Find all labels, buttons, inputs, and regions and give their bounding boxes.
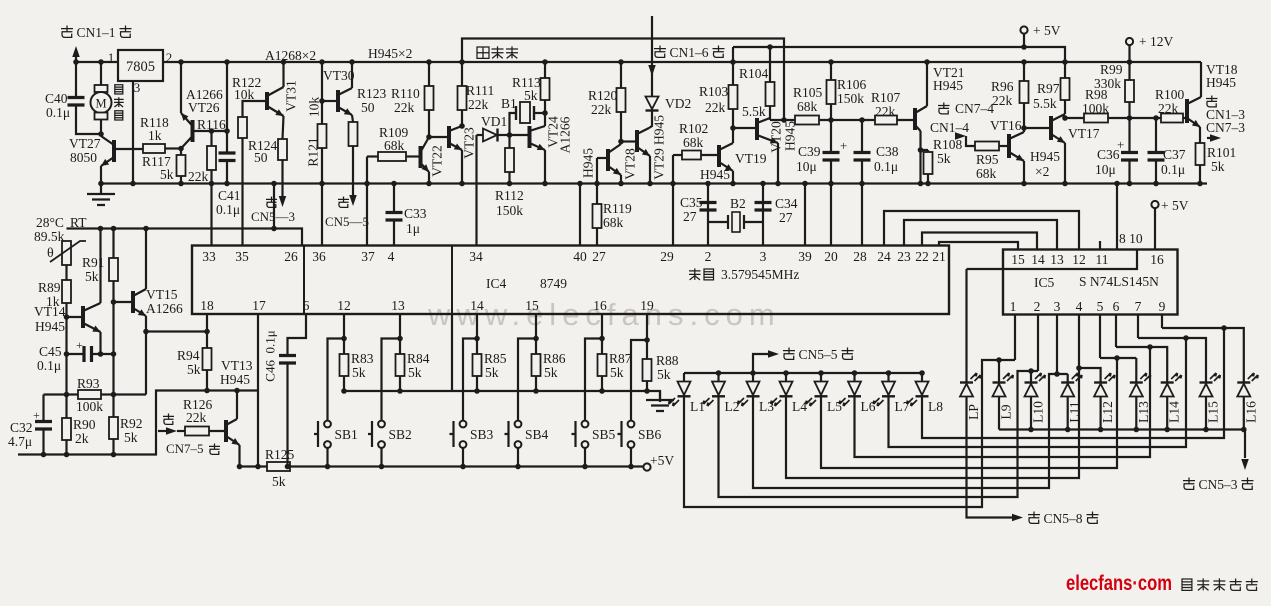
wire R103 column [732,47,734,62]
svg-text:19: 19 [640,298,654,313]
wire L14 anode [1166,397,1168,430]
capacitor C38 0.1u [861,120,863,152]
svg-text:VT16: VT16 [990,118,1022,133]
svg-text:C46 0.1μ: C46 0.1μ [263,330,278,381]
wire pin33 column [210,184,212,246]
resistor R97 5.5k [1061,78,1070,100]
svg-text:VT31: VT31 [284,80,299,112]
svg-text:100k: 100k [1082,101,1109,116]
svg-text:R86: R86 [543,351,566,366]
svg-text:H945: H945 [1206,75,1236,90]
wire VT30 collector [351,62,353,88]
svg-text:C45: C45 [39,344,62,359]
svg-text:16: 16 [593,298,607,313]
capacitor C36 10u [1128,118,1130,152]
svg-text:C41: C41 [218,188,241,203]
capacitor C46 0.1u [288,315,307,356]
wire VT14 collector [99,229,101,304]
svg-text:10k: 10k [234,87,255,102]
svg-text:21: 21 [932,249,946,264]
wire VT29 base [621,140,637,142]
wire VT21 collector [926,62,928,106]
svg-text:VT29: VT29 [652,148,667,180]
svg-text:89.5k: 89.5k [34,229,65,244]
wire pin37 column [366,157,368,246]
LED L16 [1237,381,1250,383]
wire CN1-1 lead [75,52,77,62]
svg-text:θ: θ [47,246,54,261]
transistor VT18 H945 [1185,99,1189,123]
svg-text:7805: 7805 [126,59,155,75]
svg-text:22k: 22k [394,100,415,115]
resistor R90 2k [62,418,71,440]
node CN1-3 CN7-3 out labels [1206,96,1218,107]
svg-text:S N74LS145N: S N74LS145N [1079,274,1159,289]
svg-text:5k: 5k [657,367,671,382]
resistor R123 50 [349,122,358,146]
svg-text:elecfans·com: elecfans·com [1066,571,1172,595]
wire VT13 emitter [238,445,240,467]
svg-text:B2: B2 [730,196,746,211]
svg-text:R108: R108 [933,137,963,152]
transistor VT17 [1049,116,1053,140]
svg-text:150k: 150k [496,203,523,218]
svg-text:R106: R106 [837,77,867,92]
svg-text:+ 12V: + 12V [1139,34,1173,49]
wire right LED anode bus [999,428,1245,430]
node CN7-5 input [163,414,174,425]
wire L8 anode [921,373,923,382]
wire emitter to R94 top [146,330,207,332]
wire R110 top [428,62,430,86]
svg-text:R90: R90 [73,417,96,432]
LED L9 [993,381,1006,383]
svg-text:CN5–8: CN5–8 [1044,511,1083,526]
svg-text:R123: R123 [357,86,387,101]
resistor R86 5k [532,354,541,376]
capacitor C37 0.1u [1155,118,1157,152]
svg-text:A1266: A1266 [558,116,573,153]
wire L2 step to IC5 pin2 [719,371,1039,497]
resistor R91 5k [109,258,118,281]
wire buzzer rail [462,39,784,121]
svg-text:R104: R104 [739,66,769,81]
svg-text:IC5: IC5 [1034,275,1055,290]
regulator 7805 [118,50,163,81]
svg-text:4.7μ: 4.7μ [8,434,32,449]
wire VT31 base / resistor R122 10k [243,101,268,117]
diode VD2 [646,97,659,110]
wire L12 anode [1099,397,1101,430]
transistor VT13 H945 [224,420,228,442]
diode VD1 [477,134,484,136]
svg-text:R125: R125 [265,447,295,462]
wire L16 anode [1243,397,1245,430]
resistor R119 68k [593,204,602,228]
svg-text:5k: 5k [352,365,366,380]
switch SB1 [324,421,331,428]
svg-text:L2: L2 [725,399,740,414]
wire L5 step to IC5 pin5 [821,358,1117,468]
svg-text:A1266: A1266 [146,301,183,316]
svg-text:2: 2 [166,50,173,65]
svg-text:H945: H945 [700,167,730,182]
svg-text:B1: B1 [501,96,517,111]
svg-text:L13: L13 [1136,401,1151,423]
svg-text:CN1–4: CN1–4 [930,120,969,135]
svg-text:27: 27 [592,249,606,264]
svg-text:8 10: 8 10 [1119,231,1143,246]
wire VT31 collector [282,62,284,87]
terminal +12V [1126,38,1133,45]
svg-text:C32: C32 [10,420,33,435]
LED L4 [780,382,793,396]
svg-text:H945: H945 [581,148,596,178]
wire VT15 collector [145,229,147,290]
wire C41 top [226,62,228,152]
svg-text:11: 11 [1096,252,1109,267]
svg-text:SB1: SB1 [335,427,358,442]
svg-text:1k: 1k [148,128,162,143]
wire L1 anode [683,373,685,382]
svg-text:+: + [840,138,847,153]
svg-text:SB5: SB5 [592,427,616,442]
svg-text:100k: 100k [76,399,103,414]
resistor R83 5k [340,354,349,376]
svg-text:22k: 22k [705,100,726,115]
wire branch to SB4 [518,339,536,421]
transistor VT23 [447,126,451,148]
wire node B1 left [507,132,513,138]
wire VT13 collector [236,391,238,420]
svg-text:VT30: VT30 [323,68,355,83]
svg-text:14: 14 [470,298,484,313]
svg-text:R91: R91 [82,255,105,270]
wire VT26 base [193,130,228,132]
svg-text:R96: R96 [991,79,1014,94]
svg-text:50: 50 [254,150,268,165]
wire left column [65,303,67,418]
wire VT16 collector / R96 column [1023,103,1025,132]
capacitor C32 4.7u [42,395,44,422]
wire R121 column [321,62,323,124]
resistor R110 22k [425,86,434,110]
svg-text:3: 3 [134,80,141,95]
svg-text:35: 35 [235,249,249,264]
svg-text:2: 2 [1034,299,1041,314]
wire LP anode to CN5-8 [967,397,1013,518]
switch SB5 [582,421,589,428]
wire base row y118 [1065,117,1187,119]
wire pin40 column [579,184,581,246]
wire L4 anode [785,373,787,382]
svg-text:28: 28 [853,249,867,264]
svg-text:27: 27 [779,210,793,225]
LED L1 [678,382,691,396]
svg-text:68k: 68k [797,99,818,114]
wire R104 column [769,47,771,82]
wire R123 to CN5-5 arrow [352,146,354,196]
resistor R108 5k [921,149,929,151]
wire L7 step to IC5 pin7 [889,338,1187,447]
terminal +5V IC5 [1151,201,1158,208]
transistor VT28 [606,149,610,171]
svg-text:1: 1 [108,50,115,65]
wire CN1-4 input to R95 [955,132,966,140]
wire pin2 column [707,184,709,246]
svg-text:+: + [33,408,40,422]
wire IC4 pin column R88 [646,315,648,360]
svg-text:C34: C34 [775,196,798,211]
svg-text:H945×2: H945×2 [368,46,412,61]
svg-text:24: 24 [877,249,891,264]
svg-text:68k: 68k [384,138,405,153]
svg-text:L14: L14 [1167,401,1182,423]
svg-text:7: 7 [1135,299,1142,314]
LED LP [960,381,973,383]
LED L14 [1161,381,1174,383]
svg-text:2: 2 [705,249,712,264]
svg-text:CN7–4: CN7–4 [955,101,994,116]
wire branch to SB2 [382,339,401,421]
wire VT15 emitter [145,316,147,395]
resistor R116 22k [207,146,216,170]
svg-text:1μ: 1μ [406,221,420,236]
LED L10 [1025,381,1038,383]
wire L1 step to IC5 pin1 [684,360,1015,507]
svg-text:VD2: VD2 [665,96,691,111]
wire IC4 pin29 column [672,155,674,246]
svg-text:5k: 5k [187,362,201,377]
svg-text:36: 36 [312,249,326,264]
LED L7 [882,382,895,396]
svg-text:22: 22 [915,249,929,264]
svg-text:12: 12 [1072,252,1086,267]
svg-text:5k: 5k [272,474,286,489]
wire IC4 divider continuation [451,314,453,391]
resistor R113 5k [544,62,546,78]
label buzzer [477,47,489,58]
wire IC4 pin column R87 [601,315,603,355]
op-amp IC4 8749 box [192,246,949,315]
svg-text:5k: 5k [160,167,174,182]
logo chinese [1182,579,1192,590]
capacitor C34 27 [755,203,772,211]
resistor R85 5k [473,354,482,376]
wire VT17 base [1021,125,1027,131]
svg-text:27: 27 [683,209,697,224]
svg-text:68k: 68k [976,166,997,181]
svg-text:5.5k: 5.5k [742,104,766,119]
transistor VT20 [755,118,759,140]
wire L10 anode [1030,397,1032,430]
svg-text:29: 29 [660,249,674,264]
LED L13 [1130,381,1143,383]
svg-text:SB4: SB4 [525,427,549,442]
wire IC5 divider to LP [967,250,1138,270]
svg-text:R105: R105 [793,85,823,100]
wire VT18 emitter / R101 [1199,127,1201,143]
transistor VT31 [265,92,269,110]
svg-text:CN5–3: CN5–3 [1199,477,1238,492]
svg-text:4: 4 [1076,299,1083,314]
svg-text:L15: L15 [1206,401,1221,423]
wire VT28 base [597,157,608,159]
svg-text:C37: C37 [1163,147,1186,162]
svg-text:VT15: VT15 [146,287,178,302]
svg-text:5k: 5k [124,430,138,445]
svg-text:R89: R89 [38,280,61,295]
transistor VT29 [635,130,639,152]
svg-text:R120: R120 [588,88,618,103]
svg-text:CN5––5: CN5––5 [325,214,369,229]
svg-text:VT23: VT23 [462,127,477,159]
transistor VT26 A1266 [191,120,195,142]
wire IC4 pin column R86 [535,315,537,355]
crystal B2 [708,221,727,223]
wire middle column R91/R92 [112,229,114,259]
svg-text:5k: 5k [1211,159,1225,174]
svg-text:6: 6 [303,298,310,313]
svg-text:5k: 5k [85,269,99,284]
transistor VT19 [717,145,721,167]
resistor R117 5k [177,155,186,176]
svg-text:37: 37 [361,249,375,264]
svg-text:VT14: VT14 [34,304,66,319]
svg-text:SB6: SB6 [638,427,662,442]
wire LP cathode from IC5 [965,269,967,383]
svg-text:5k: 5k [408,365,422,380]
wire to IC4 pin36 [321,184,323,246]
node CN5-5 out label [338,197,349,208]
resistor R102 68k [682,151,701,160]
wire pin23 to IC5 pin13 [904,220,1057,250]
resistor R112 150k [505,148,514,172]
node CN5-3 label [1183,478,1195,490]
resistor R94 5k [203,348,212,370]
resistor R92 5k [109,417,118,439]
LED L12 [1094,381,1107,383]
svg-text:H945: H945 [220,372,250,387]
svg-text:1: 1 [1010,299,1017,314]
svg-text:VT17: VT17 [1068,126,1100,141]
terminal +5V buttons [643,463,650,470]
svg-text:34: 34 [469,249,483,264]
svg-text:R119: R119 [603,201,632,216]
transistor VT24 A1266 [528,126,532,148]
svg-text:VT28: VT28 [623,148,638,180]
motor M (电动机) [100,62,102,85]
svg-text:150k: 150k [837,91,864,106]
wire VT21 emitter column [919,131,921,184]
wire L6 anode [853,373,855,382]
svg-text:R83: R83 [351,351,374,366]
wire pin4 column with C33 [393,184,395,213]
node CN5-5 input [753,354,768,373]
resistor R95 68k [975,142,999,151]
svg-text:3: 3 [760,249,767,264]
svg-text:9: 9 [1159,299,1166,314]
wire IC4 pin column R84 [399,315,401,355]
wire L9 anode [998,397,1000,430]
ground main [87,185,115,205]
wire CN1-6 feed [651,16,653,96]
resistor R89 1k [65,265,67,280]
resistor R121 10k [318,124,327,148]
wire VD1 anode to IC4 pin34 [475,135,477,246]
resistor R120 22k [617,88,626,112]
LED L6 [848,382,861,396]
svg-text:R88: R88 [656,353,679,368]
wire VT26 emitter to bus [180,62,182,113]
svg-text:L12: L12 [1100,401,1115,423]
terminal +5V [1020,26,1027,33]
svg-text:3.579545MHz: 3.579545MHz [721,267,799,282]
svg-text:H945: H945 [35,319,65,334]
wire ground bus [100,182,1207,184]
svg-text:R100: R100 [1155,87,1185,102]
svg-text:10k: 10k [307,97,322,118]
wire pin26 jog [273,184,275,229]
svg-text:L1: L1 [690,399,705,414]
wire pin20 column [830,184,832,246]
LED L11 [1061,381,1074,383]
svg-text:15: 15 [1011,252,1025,267]
wire LED anode bus [684,372,922,374]
svg-text:33: 33 [202,249,216,264]
resistor R125 5k [267,462,290,471]
svg-text:12: 12 [337,298,351,313]
resistor R118 1k [143,144,165,153]
svg-text:3: 3 [1054,299,1061,314]
thermistor RT [62,241,71,265]
svg-text:R87: R87 [609,351,632,366]
svg-text:R97: R97 [1037,81,1060,96]
resistor R96 22k [1020,81,1029,103]
resistor R105 68k [795,116,819,125]
svg-text:+: + [1117,137,1124,152]
wire RT top row [67,229,303,246]
LED L2 [712,382,725,396]
LED L3 [747,382,760,396]
resistor R126 22k [185,427,209,436]
switch SB3 [460,421,467,428]
wire 7805 pin3 to ground bus [132,81,134,184]
svg-text:5k: 5k [485,365,499,380]
wire branch to SB6 [631,340,647,421]
wire bottom-left ground row [18,391,258,455]
svg-text:R101: R101 [1207,145,1236,160]
wire VT23 base from VT22 collector [429,136,449,138]
wire top supply bus [76,61,1201,63]
wire pin24 to IC5 pin12 [884,211,1079,250]
resistor R106 150k [827,80,836,104]
wire L4 step to IC5 pin4 [786,315,1079,479]
wire VT27 base [114,148,143,150]
svg-text:14: 14 [1031,252,1045,267]
svg-text:C40: C40 [45,91,68,106]
svg-text:IC4: IC4 [486,276,507,291]
svg-text:39: 39 [798,249,812,264]
resistor R93 100k [44,393,79,395]
resistor R101 5k [1196,143,1205,165]
svg-text:L10: L10 [1031,401,1046,423]
svg-text:5k: 5k [544,365,558,380]
switch SB2 [378,421,385,428]
svg-text:CN7–5: CN7–5 [166,441,204,456]
wire L15 anode [1205,397,1207,430]
wire L3 step to IC5 pin3 [753,374,1068,488]
